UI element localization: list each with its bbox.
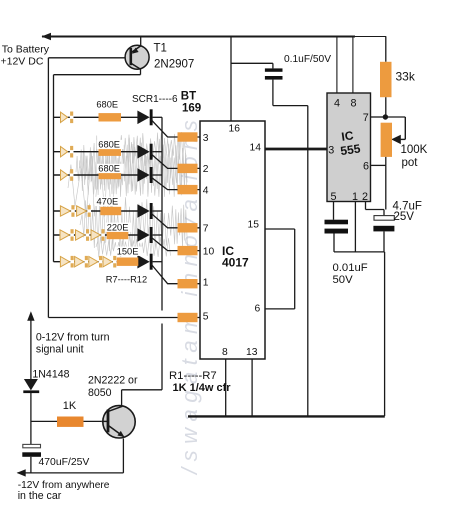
svg-text:1N4148: 1N4148 <box>32 368 69 380</box>
svg-text:4017: 4017 <box>222 256 249 270</box>
svg-text:T1: T1 <box>154 43 167 55</box>
svg-text:pot: pot <box>402 157 419 169</box>
svg-text:470E: 470E <box>97 197 119 207</box>
svg-text:2N2907: 2N2907 <box>154 59 194 71</box>
svg-text:5: 5 <box>331 191 337 203</box>
svg-text:3: 3 <box>328 145 334 157</box>
svg-text:5: 5 <box>203 311 209 322</box>
svg-text:4: 4 <box>334 98 340 110</box>
svg-text:signal unit: signal unit <box>36 344 84 356</box>
svg-text:2: 2 <box>203 164 209 175</box>
svg-text:6: 6 <box>363 160 369 172</box>
svg-text:1K 1/4w cfr: 1K 1/4w cfr <box>173 382 232 394</box>
svg-text:14: 14 <box>250 143 262 154</box>
svg-text:R7----R12: R7----R12 <box>106 275 147 285</box>
svg-text:50V: 50V <box>333 274 354 286</box>
svg-text:220E: 220E <box>107 222 129 232</box>
svg-text:2N2222 or: 2N2222 or <box>88 375 138 387</box>
svg-text:1: 1 <box>352 191 358 203</box>
svg-text:7: 7 <box>363 112 369 124</box>
svg-text:15: 15 <box>248 219 260 230</box>
svg-text:680E: 680E <box>96 100 118 110</box>
svg-text:1: 1 <box>203 278 209 289</box>
svg-text:3: 3 <box>203 133 209 144</box>
svg-text:2: 2 <box>362 191 368 203</box>
svg-text:470uF/25V: 470uF/25V <box>39 457 90 468</box>
svg-text:10: 10 <box>203 246 215 257</box>
svg-text:8050: 8050 <box>88 387 112 399</box>
svg-text:100K: 100K <box>401 144 428 156</box>
svg-text:0-12V from turn: 0-12V from turn <box>36 332 110 344</box>
svg-text:33k: 33k <box>396 70 416 84</box>
svg-text:R1-----R7: R1-----R7 <box>169 370 217 382</box>
svg-text:To Battery: To Battery <box>2 43 50 55</box>
svg-text:680E: 680E <box>98 164 120 174</box>
svg-text:8: 8 <box>351 98 357 110</box>
svg-text:8: 8 <box>222 347 228 358</box>
svg-text:BT: BT <box>181 91 196 103</box>
svg-text:0.01uF: 0.01uF <box>333 262 368 274</box>
svg-text:150E: 150E <box>117 246 139 256</box>
svg-text:25V: 25V <box>394 211 415 223</box>
svg-text:in the car: in the car <box>18 490 62 502</box>
svg-text:16: 16 <box>229 123 241 134</box>
svg-text:169: 169 <box>182 102 201 114</box>
svg-text:680E: 680E <box>98 140 120 150</box>
svg-text:+12V DC: +12V DC <box>1 55 44 67</box>
svg-text:7: 7 <box>203 224 209 235</box>
svg-text:4: 4 <box>203 185 209 196</box>
svg-text:555: 555 <box>339 141 361 158</box>
svg-text:13: 13 <box>246 347 258 358</box>
svg-text:0.1uF/50V: 0.1uF/50V <box>284 54 331 65</box>
svg-text:1K: 1K <box>63 400 77 412</box>
svg-text:SCR1----6: SCR1----6 <box>132 94 178 105</box>
svg-text:6: 6 <box>255 303 261 314</box>
